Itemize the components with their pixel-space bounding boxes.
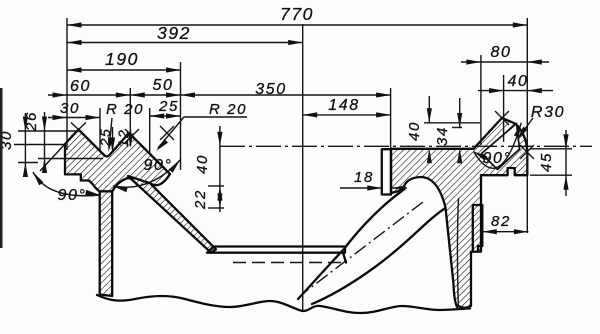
svg-text:40: 40: [194, 154, 211, 174]
svg-text:R 20: R 20: [106, 101, 144, 118]
svg-text:40: 40: [406, 121, 423, 141]
svg-text:30: 30: [60, 100, 80, 117]
svg-text:12: 12: [115, 129, 131, 148]
svg-text:60: 60: [70, 78, 91, 95]
svg-text:45: 45: [538, 152, 555, 172]
svg-text:82: 82: [491, 213, 511, 230]
svg-text:80: 80: [491, 44, 512, 61]
svg-text:18: 18: [354, 169, 374, 186]
svg-text:25: 25: [97, 128, 113, 148]
svg-text:350: 350: [255, 81, 287, 98]
svg-text:R30: R30: [531, 104, 565, 121]
svg-text:190: 190: [105, 49, 139, 69]
svg-text:25: 25: [158, 98, 179, 115]
svg-text:392: 392: [157, 23, 191, 43]
svg-text:40: 40: [508, 73, 529, 90]
svg-text:R 20: R 20: [209, 101, 247, 118]
svg-text:22: 22: [192, 189, 209, 210]
svg-text:770: 770: [280, 4, 314, 24]
svg-text:34: 34: [434, 126, 451, 146]
svg-text:26: 26: [23, 111, 40, 132]
svg-text:50: 50: [153, 77, 174, 94]
svg-text:148: 148: [328, 97, 360, 114]
